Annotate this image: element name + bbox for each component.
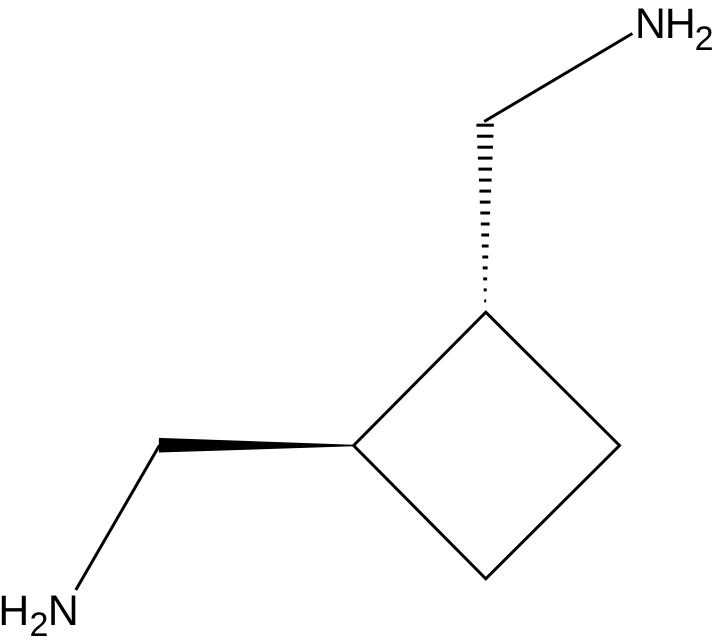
svg-text:N: N [48, 587, 79, 635]
svg-text:H: H [665, 0, 696, 48]
svg-text:H: H [0, 587, 29, 635]
bond CH2 to H2N (bottom left) [76, 445, 160, 590]
svg-text:N: N [635, 0, 666, 48]
svg-text:2: 2 [30, 606, 49, 644]
bond CH2 to NH2 (top) [484, 34, 632, 122]
cyclobutane ring [354, 312, 620, 579]
hashed wedge bond (ring C1 to CH2, narrow at ring) [476, 124, 494, 303]
solid wedge bond (ring C3 to CH2, narrow at ring) [159, 438, 354, 453]
svg-text:2: 2 [695, 20, 713, 58]
